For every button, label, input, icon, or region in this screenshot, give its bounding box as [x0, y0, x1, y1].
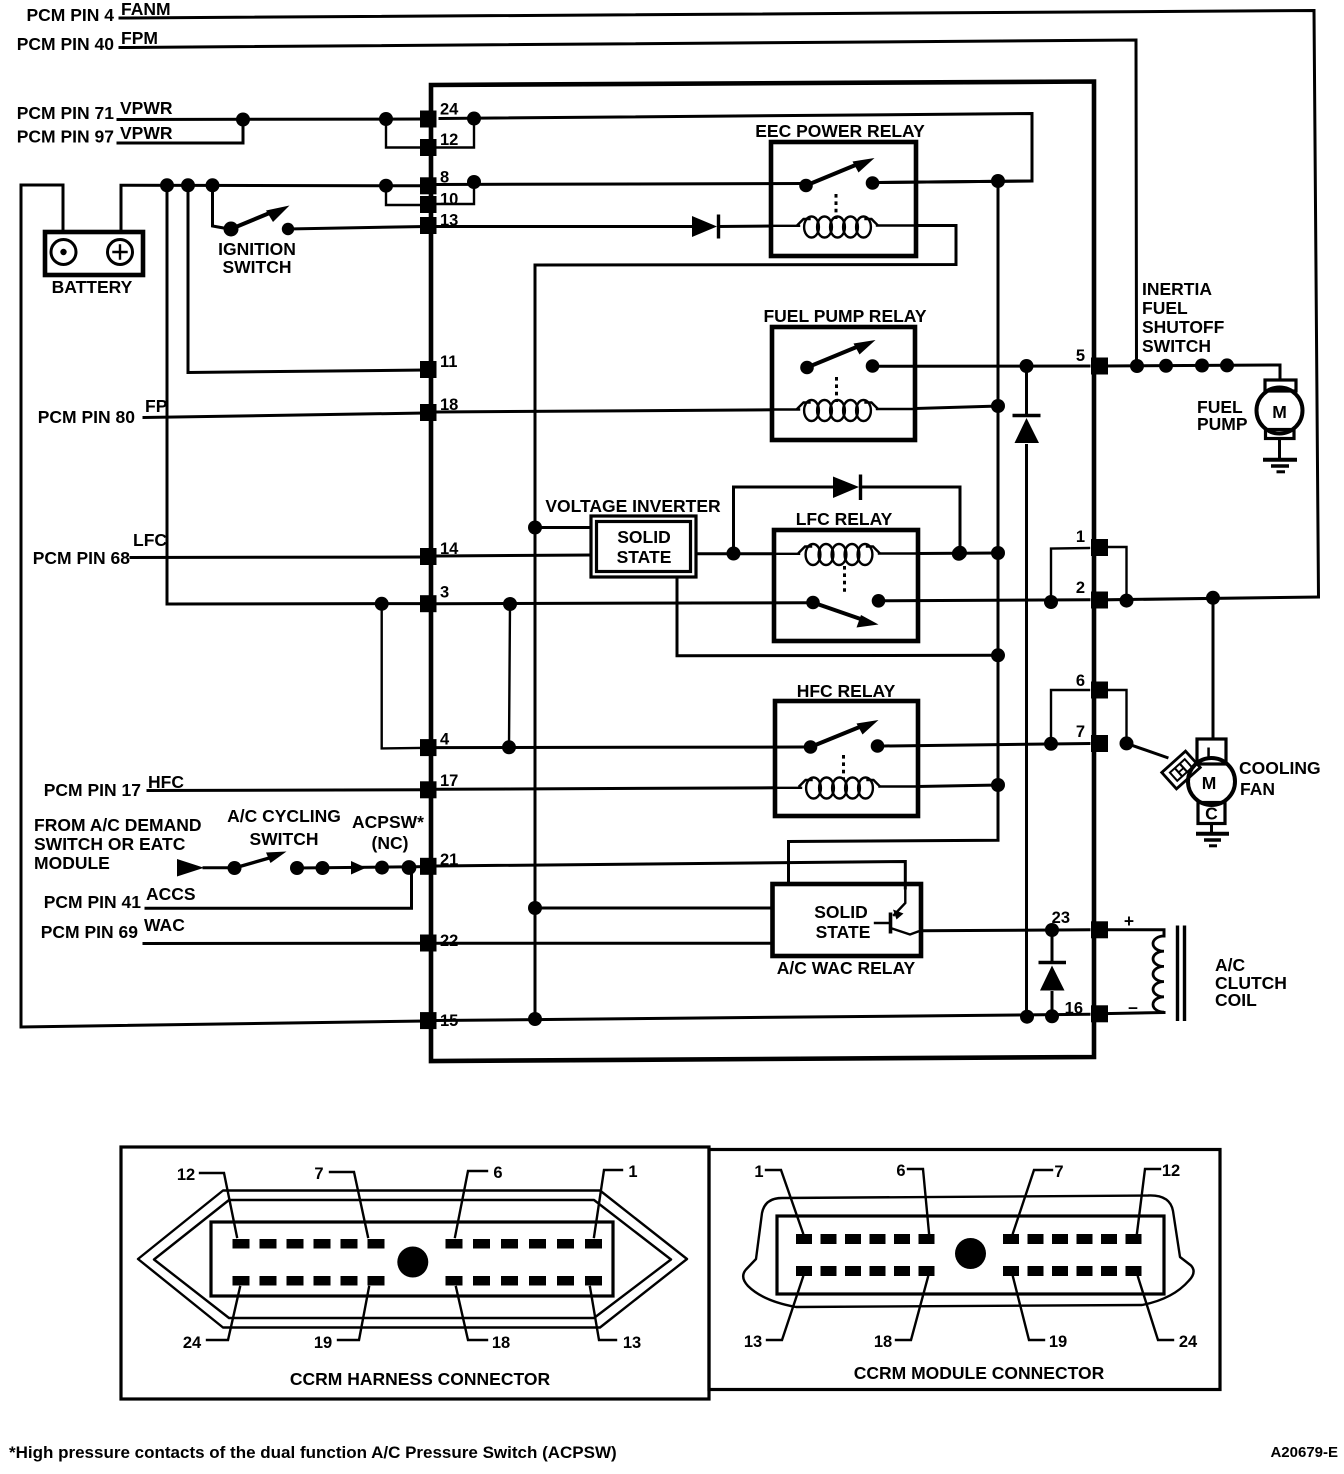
- wire junction: [872, 594, 886, 608]
- svg-text:WAC: WAC: [144, 915, 185, 935]
- pin 1 (CCRM right): [1091, 539, 1108, 556]
- svg-text:6: 6: [493, 1164, 502, 1182]
- svg-text:(NC): (NC): [372, 833, 409, 853]
- pin 2 (CCRM right): [1091, 592, 1108, 609]
- svg-text:11: 11: [440, 353, 457, 371]
- svg-text:19: 19: [1049, 1333, 1067, 1351]
- wire junction: [528, 1012, 542, 1026]
- pin 3 (CCRM left): [420, 595, 437, 612]
- svg-text:BATTERY: BATTERY: [52, 277, 133, 297]
- wire junction: [206, 178, 220, 192]
- cooling fan L box: [1197, 739, 1226, 764]
- wire junction: [467, 112, 481, 126]
- wire junction: [1130, 359, 1144, 373]
- svg-text:FPM: FPM: [121, 28, 158, 48]
- ACPSW contacts: [351, 861, 366, 875]
- wire pin8-pin10 outer loop: [386, 186, 419, 205]
- svg-text:2: 2: [1076, 579, 1085, 597]
- wire junction: [1044, 737, 1058, 751]
- cooling fan C box: [1198, 803, 1225, 824]
- wire battery feed row / left border: [21, 185, 424, 1027]
- wire FANM (PCM PIN 4 to right border): [120, 11, 1319, 598]
- svg-text:18: 18: [874, 1333, 892, 1351]
- wire pin18 row: [144, 413, 424, 418]
- svg-text:PCM PIN 97: PCM PIN 97: [17, 127, 114, 147]
- svg-text:FP: FP: [145, 396, 168, 416]
- svg-text:1: 1: [628, 1163, 637, 1181]
- svg-text:FUEL PUMP RELAY: FUEL PUMP RELAY: [763, 306, 926, 326]
- svg-text:13: 13: [744, 1333, 762, 1351]
- A/C WAC relay solid state box: [773, 884, 922, 956]
- wire inverter output: [696, 552, 774, 555]
- wire pin17 row: [148, 788, 424, 792]
- pin 5 (CCRM right): [1091, 358, 1108, 375]
- pin 13 (CCRM left): [420, 217, 437, 234]
- wire ground bus to WAC: [535, 907, 773, 910]
- svg-text:SWITCH: SWITCH: [222, 257, 291, 277]
- wire junction: [1195, 359, 1209, 373]
- wire junction: [1159, 359, 1173, 373]
- svg-text:ACPSW*: ACPSW*: [352, 812, 424, 832]
- svg-text:VPWR: VPWR: [120, 98, 173, 118]
- wire junction: [375, 597, 389, 611]
- wire junction: [1045, 923, 1059, 937]
- wire ignition to pin13: [288, 227, 424, 230]
- pin 16 (CCRM right): [1091, 1005, 1108, 1022]
- wire FPM (PCM PIN 40 to fuel pump feed): [120, 40, 1137, 366]
- svg-text:A20679-E: A20679-E: [1270, 1444, 1338, 1461]
- pin 21 (CCRM left): [420, 858, 437, 875]
- wire EEC output bus: [789, 181, 999, 884]
- wire junction: [799, 179, 813, 193]
- wire junction: [991, 778, 1005, 792]
- wire pin3-pin4 inner loop: [509, 604, 510, 747]
- pin 8 (CCRM left): [420, 177, 437, 194]
- svg-text:19: 19: [314, 1334, 332, 1352]
- wire junction: [503, 597, 517, 611]
- svg-text:7: 7: [1054, 1163, 1063, 1181]
- wire pin2 row to FANM/fan: [1106, 597, 1319, 600]
- wire internal ground bus: [534, 265, 537, 1019]
- svg-text:PCM PIN 4: PCM PIN 4: [26, 5, 114, 25]
- svg-text:24: 24: [1179, 1333, 1198, 1351]
- svg-text:18: 18: [492, 1334, 510, 1352]
- LFC coil: [774, 553, 799, 555]
- wire junction: [375, 861, 389, 875]
- wire pin1-pin2 loops: [1051, 548, 1089, 602]
- relay LFC relay: [774, 530, 918, 641]
- svg-text:STATE: STATE: [617, 547, 672, 567]
- pin 12 (CCRM left): [420, 139, 437, 156]
- svg-text:24: 24: [183, 1334, 202, 1352]
- wire junction: [236, 113, 250, 127]
- svg-text:ACCS: ACCS: [146, 884, 196, 904]
- svg-text:4: 4: [440, 731, 450, 749]
- svg-text:+: +: [1124, 911, 1134, 931]
- wire junction: [866, 359, 880, 373]
- svg-text:24: 24: [440, 101, 459, 119]
- svg-text:VOLTAGE INVERTER: VOLTAGE INVERTER: [545, 496, 721, 516]
- wire junction: [991, 399, 1005, 413]
- svg-text:12: 12: [177, 1166, 195, 1184]
- module connector pin field: [777, 1216, 1164, 1294]
- wire pin4 row to HFC switch: [437, 746, 804, 750]
- wire junction: [160, 178, 174, 192]
- wire junction: [991, 546, 1005, 560]
- wire junction: [402, 860, 417, 875]
- svg-text:8: 8: [440, 169, 449, 187]
- svg-text:IGNITION: IGNITION: [218, 239, 296, 259]
- wire pin8 row into EEC switch: [437, 184, 801, 185]
- wire junction: [467, 175, 481, 189]
- pin 22 (CCRM left): [420, 935, 437, 952]
- svg-text:FANM: FANM: [121, 0, 171, 19]
- wire junction: [952, 547, 966, 561]
- wire junction: [502, 740, 516, 754]
- wire FPR switch to pin5: [879, 365, 1089, 368]
- svg-text:PCM PIN 80: PCM PIN 80: [38, 407, 136, 427]
- svg-text:HFC RELAY: HFC RELAY: [797, 681, 896, 701]
- CCRM bottom area: diode D3 clamp (pin5 line): [1025, 366, 1028, 1017]
- wire junction: [727, 547, 741, 561]
- relay EEC power relay: [771, 142, 916, 256]
- A/C clutch coil: [1106, 930, 1164, 936]
- wire pin24 to EEC relay contact feed: [440, 114, 1032, 183]
- pin 23 (CCRM right): [1091, 921, 1108, 938]
- svg-text:6: 6: [1076, 672, 1085, 690]
- CCRM module connector shell: [743, 1195, 1193, 1307]
- EEC coil: [771, 225, 799, 227]
- svg-text:FUEL: FUEL: [1142, 298, 1188, 318]
- svg-text:FROM A/C DEMAND: FROM A/C DEMAND: [34, 815, 202, 835]
- wire junction: [181, 178, 195, 192]
- relay fuel pump relay: [772, 327, 915, 440]
- pin 10 (CCRM left): [420, 196, 437, 213]
- svg-text:A/C: A/C: [1215, 955, 1246, 975]
- wire junction: [316, 861, 330, 875]
- svg-text:LFC: LFC: [133, 530, 167, 550]
- wire junction: [800, 361, 814, 375]
- wire pin8-pin10 inner loop: [437, 182, 474, 204]
- svg-text:CCRM HARNESS CONNECTOR: CCRM HARNESS CONNECTOR: [290, 1369, 551, 1389]
- svg-text:3: 3: [440, 584, 449, 602]
- svg-text:FAN: FAN: [1240, 779, 1275, 799]
- wire junction: [290, 861, 304, 875]
- wire junction: [1220, 358, 1234, 372]
- svg-text:SWITCH OR EATC: SWITCH OR EATC: [34, 834, 186, 854]
- diode D2 flyback across LFC coil: [734, 487, 834, 554]
- wire FPR coil to bus: [916, 406, 998, 409]
- ignition switch: [213, 185, 230, 229]
- svg-text:SHUTOFF: SHUTOFF: [1142, 317, 1225, 337]
- svg-text:A/C CYCLING: A/C CYCLING: [227, 806, 341, 826]
- svg-text:PCM PIN 69: PCM PIN 69: [41, 922, 139, 942]
- wire junction: [228, 861, 242, 875]
- wire pin24-pin12 outer loop: [386, 119, 419, 148]
- relay HFC relay: [775, 701, 918, 816]
- wire pin7 to cooling fan H: [1127, 743, 1168, 757]
- pin 7 (CCRM right): [1091, 735, 1108, 752]
- wire drop to pin11: [188, 185, 424, 372]
- HFC coil: [775, 787, 801, 789]
- pin 15 (CCRM left): [420, 1012, 437, 1029]
- fuel pump motor: [1265, 380, 1296, 391]
- pin 4 (CCRM left): [420, 739, 437, 756]
- wire pin21 row inside to WAC transistor: [437, 862, 905, 889]
- wire drop to pin3: [167, 185, 424, 604]
- wire VPWR pin97 row: [118, 119, 243, 143]
- diode D1 on pin13 wire: [437, 225, 692, 228]
- wire ACCS pin41: [146, 868, 412, 908]
- wire junction: [953, 546, 967, 560]
- harness connector pin field: [211, 1222, 613, 1296]
- wire LFC coil to bus: [918, 552, 998, 556]
- wire junction: [528, 901, 542, 915]
- wire junction: [1020, 1010, 1034, 1024]
- diode D4 flyback across A/C clutch coil: [1051, 930, 1054, 1016]
- svg-text:–: –: [1128, 997, 1138, 1017]
- svg-text:SOLID: SOLID: [617, 527, 670, 547]
- svg-text:7: 7: [1076, 723, 1085, 741]
- svg-text:COOLING: COOLING: [1239, 758, 1321, 778]
- pin 18 (CCRM left): [420, 404, 437, 421]
- wire junction: [866, 176, 880, 190]
- svg-text:22: 22: [440, 932, 458, 950]
- wire pin3 row to LFC switch: [437, 603, 807, 604]
- wire junction: [991, 174, 1005, 188]
- harness connector leader lines: [200, 1173, 237, 1237]
- pin 11 (CCRM left): [420, 361, 437, 378]
- FPR coil: [772, 408, 799, 410]
- svg-text:6: 6: [896, 1162, 905, 1180]
- pin 24 (CCRM left): [420, 111, 437, 128]
- wire pin24-pin12 inner loop: [437, 119, 474, 148]
- svg-text:HFC: HFC: [148, 772, 184, 792]
- CCRM module box: [431, 82, 1094, 1062]
- pin 14 (CCRM left): [420, 548, 437, 565]
- wire junction: [379, 112, 393, 126]
- svg-text:A/C WAC RELAY: A/C WAC RELAY: [777, 958, 916, 978]
- transistor Q1 inside WAC: [889, 913, 893, 934]
- wire junction: [1044, 595, 1058, 609]
- svg-text:INERTIA: INERTIA: [1142, 279, 1212, 299]
- svg-text:1: 1: [1076, 528, 1085, 546]
- svg-text:VPWR: VPWR: [120, 123, 173, 143]
- wire junction: [282, 223, 294, 235]
- svg-text:17: 17: [440, 772, 458, 790]
- ground (cooling fan): [1210, 824, 1213, 834]
- battery: [45, 232, 143, 275]
- svg-text:13: 13: [623, 1334, 641, 1352]
- wire EEC coil return to ground bus: [535, 226, 956, 266]
- svg-text:1: 1: [754, 1163, 763, 1181]
- wire junction: [1120, 594, 1134, 608]
- node A/C demand input arrow: [177, 859, 204, 877]
- pin 6 (CCRM right): [1091, 682, 1108, 699]
- wire HFC coil to bus: [918, 785, 998, 787]
- svg-text:EEC POWER RELAY: EEC POWER RELAY: [755, 121, 925, 141]
- wire pin6-pin7 loops: [1051, 690, 1089, 744]
- wire EEC switch output: [879, 181, 1032, 183]
- wire WAC emitter output to pin23: [921, 930, 1089, 931]
- svg-text:5: 5: [1076, 347, 1085, 365]
- wire pin22 WAC row: [144, 942, 424, 945]
- svg-text:10: 10: [440, 191, 458, 209]
- svg-text:PUMP: PUMP: [1197, 414, 1248, 434]
- pin 17 (CCRM left): [420, 781, 437, 798]
- svg-text:LFC RELAY: LFC RELAY: [796, 509, 893, 529]
- svg-text:PCM PIN 71: PCM PIN 71: [17, 103, 115, 123]
- svg-text:7: 7: [314, 1165, 323, 1183]
- CCRM harness connector shell: [138, 1191, 687, 1328]
- voltage inverter solid state box: [591, 516, 696, 577]
- wire junction: [1206, 591, 1220, 605]
- wire junction: [1020, 359, 1034, 373]
- svg-text:C: C: [1205, 804, 1218, 824]
- svg-text:M: M: [1272, 402, 1287, 422]
- svg-text:12: 12: [1162, 1162, 1180, 1180]
- wire ground bus tap to inverter: [535, 526, 591, 529]
- svg-text:SWITCH: SWITCH: [1142, 336, 1211, 356]
- svg-text:CCRM MODULE CONNECTOR: CCRM MODULE CONNECTOR: [854, 1363, 1105, 1383]
- wire HFC switch to pin7: [884, 744, 1089, 747]
- wire fan L feed: [1212, 598, 1215, 739]
- wire VPWR pin71 row: [118, 118, 424, 122]
- wire junction: [806, 596, 820, 610]
- wire LFC switch to pin2: [885, 600, 1089, 601]
- svg-text:*High pressure contacts of the: *High pressure contacts of the dual func…: [9, 1443, 617, 1462]
- wire pin14 LFC row: [131, 556, 424, 560]
- svg-text:STATE: STATE: [816, 922, 871, 942]
- wire junction: [379, 179, 393, 193]
- svg-text:SWITCH: SWITCH: [249, 829, 318, 849]
- svg-text:SOLID: SOLID: [814, 902, 867, 922]
- wire junction: [804, 740, 818, 754]
- cooling fan H connector (rotated): [1162, 751, 1201, 789]
- wire junction: [871, 739, 885, 753]
- wire junction: [991, 648, 1005, 662]
- wire junction: [224, 222, 239, 237]
- wire junction: [528, 521, 542, 535]
- svg-text:PCM PIN 68: PCM PIN 68: [33, 548, 131, 568]
- svg-text:MODULE: MODULE: [34, 853, 110, 873]
- svg-text:M: M: [1202, 773, 1217, 793]
- svg-text:COIL: COIL: [1215, 990, 1257, 1010]
- svg-text:L: L: [1206, 744, 1217, 764]
- wire junction: [1045, 1009, 1059, 1023]
- inertia fuel shutoff switch: [1106, 365, 1280, 380]
- svg-text:PCM PIN 40: PCM PIN 40: [17, 34, 115, 54]
- wire junction: [1120, 736, 1134, 750]
- svg-text:PCM PIN 17: PCM PIN 17: [44, 780, 141, 800]
- ground (fuel pump): [1278, 439, 1281, 460]
- module connector leader lines: [766, 1170, 803, 1233]
- wire pin15 ground row: [437, 1014, 1089, 1020]
- wire inverter power feed: [677, 577, 998, 656]
- wire pin3-pin4 outer loop: [382, 604, 419, 749]
- svg-text:PCM PIN 41: PCM PIN 41: [44, 892, 142, 912]
- connector panel boxes: [121, 1147, 709, 1399]
- cooling fan motor: [1188, 758, 1235, 805]
- svg-text:12: 12: [440, 131, 458, 149]
